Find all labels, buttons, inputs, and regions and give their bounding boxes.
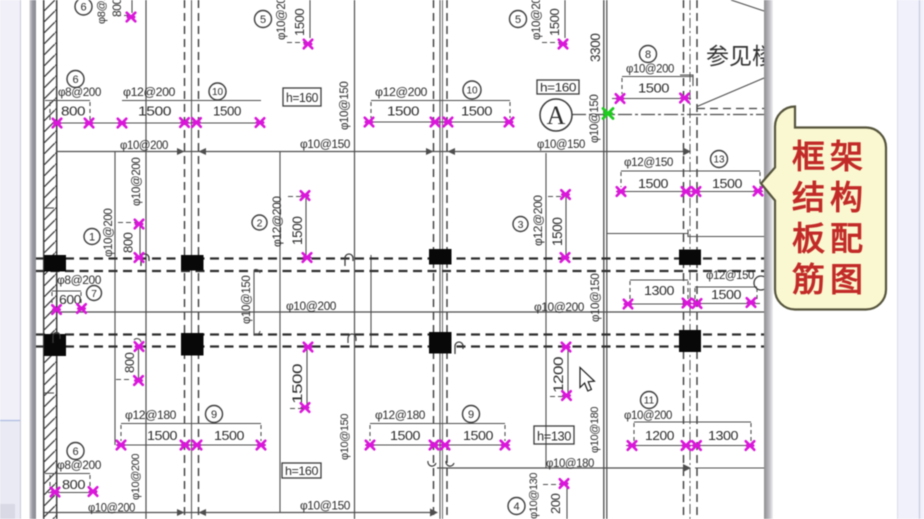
column B2 [181, 333, 204, 356]
callout text [792, 138, 868, 298]
axis A line [572, 114, 764, 116]
svg-text:h=130: h=130 [537, 430, 571, 444]
svg-text:h=160: h=160 [540, 81, 577, 95]
cluster 5 left [255, 0, 313, 48]
svg-text:φ10@200: φ10@200 [534, 302, 584, 314]
cluster 6 top-cut [75, 0, 135, 24]
dim row1 mid: phi12 1500x2 [365, 81, 514, 126]
svg-text:φ12@180: φ12@180 [125, 410, 176, 422]
drawing edge right [764, 0, 897, 519]
svg-text:φ10@180: φ10@180 [589, 407, 601, 453]
stair diagonal 1 [731, 0, 764, 11]
stair corner bracket [680, 75, 693, 86]
svg-text:φ10@200: φ10@200 [131, 158, 143, 206]
wall tick b [44, 207, 54, 209]
cluster 13 [616, 151, 763, 196]
svg-text:筋图: 筋图 [792, 261, 868, 298]
svg-text:φ10@200: φ10@200 [120, 140, 168, 152]
column C2 [429, 332, 452, 354]
bracket phi10@150 x254 [241, 269, 260, 334]
svg-text:1300: 1300 [644, 283, 674, 298]
wire v371 [370, 255, 372, 346]
vtext phi10@150 right [589, 95, 601, 143]
svg-text:1500: 1500 [461, 104, 492, 119]
text phi10@200 bottom left [88, 503, 135, 515]
svg-text:板配: 板配 [792, 220, 868, 257]
svg-text:φ10@150: φ10@150 [589, 95, 601, 143]
h=160 box left [283, 88, 321, 106]
grid line D dashed pair [684, 0, 698, 519]
callout bubble [761, 107, 886, 310]
svg-text:5: 5 [515, 14, 521, 26]
svg-text:1: 1 [89, 231, 95, 243]
cluster 7 600 [52, 275, 102, 314]
svg-text:φ8@200: φ8@200 [58, 87, 101, 99]
hook e [446, 461, 454, 466]
hook d [53, 333, 60, 343]
svg-text:800: 800 [62, 477, 85, 492]
svg-text:φ10@150: φ10@150 [300, 139, 350, 151]
main line y151 with arrow [57, 148, 691, 156]
beam band 2 [36, 335, 764, 347]
h=130 box [534, 426, 574, 444]
svg-text:φ10@200: φ10@200 [624, 410, 672, 422]
svg-text:1500: 1500 [387, 104, 419, 119]
text phi10@150 mid [300, 139, 350, 151]
svg-text:3: 3 [518, 219, 524, 231]
cluster 1300 bottom [708, 423, 754, 450]
svg-text:1500: 1500 [638, 81, 669, 96]
bottom line y512 [44, 509, 438, 517]
svg-text:φ10@150: φ10@150 [339, 82, 351, 130]
svg-text:10: 10 [466, 86, 478, 97]
svg-text:8: 8 [645, 49, 651, 61]
line y236 right [607, 230, 764, 237]
vtext phi10@200 x135 bottom [130, 454, 142, 500]
dim row1 left: phi8 800 + phi12 1500x2 [45, 71, 264, 128]
cluster 5 right [510, 0, 568, 48]
svg-text:φ10@20: φ10@20 [276, 0, 288, 40]
svg-text:φ12@200: φ12@200 [270, 196, 284, 247]
column D1 [679, 250, 701, 266]
column D2 [679, 330, 701, 352]
svg-text:φ12@200: φ12@200 [123, 87, 175, 99]
hook g [348, 334, 356, 343]
right margin strip [897, 0, 924, 519]
hook b [345, 254, 353, 266]
hook a [141, 254, 149, 266]
svg-text:1500: 1500 [547, 9, 562, 36]
column B1 [181, 255, 204, 271]
stair dashed line [697, 108, 764, 110]
svg-text:1500: 1500 [290, 217, 305, 245]
left scrollbar band [30, 0, 37, 519]
hook c [455, 342, 463, 354]
cluster 1 [84, 209, 143, 262]
cluster 11 [624, 392, 754, 450]
svg-text:φ10@150: φ10@150 [537, 139, 585, 151]
wire v280 [279, 151, 281, 512]
text phi10@200 mid1 [286, 301, 336, 313]
svg-text:φ12@200: φ12@200 [375, 87, 427, 99]
wire v605 double [604, 0, 607, 519]
svg-text:1500: 1500 [712, 176, 742, 191]
h=160 box right [537, 80, 579, 95]
svg-text:800: 800 [121, 232, 136, 253]
svg-text:10: 10 [212, 87, 224, 98]
wire v546 [545, 153, 547, 468]
svg-text:1500: 1500 [213, 104, 241, 119]
wall tick a [44, 392, 54, 394]
svg-text:2: 2 [257, 217, 263, 229]
svg-text:φ12@150: φ12@150 [624, 157, 673, 169]
svg-text:9: 9 [211, 409, 217, 421]
cluster phi12@150 1500 right [691, 270, 768, 308]
vtext phi10@200 x136 [131, 158, 143, 206]
svg-text:13: 13 [713, 155, 725, 166]
line y468 with arrow [428, 461, 764, 472]
wire v147 [145, 0, 147, 519]
svg-text:800: 800 [61, 105, 86, 119]
svg-text:φ10@200: φ10@200 [130, 454, 142, 500]
svg-text:1200: 1200 [645, 428, 674, 443]
green snap marker [603, 109, 613, 119]
vdim 1200 x568 [550, 343, 571, 400]
svg-text:φ10@130: φ10@130 [528, 473, 540, 519]
svg-text:φ8@2: φ8@2 [96, 0, 108, 24]
text 3300 [588, 34, 603, 62]
svg-text:1300: 1300 [708, 428, 738, 443]
svg-text:4: 4 [513, 501, 519, 513]
grid line B dashed pair [185, 0, 199, 519]
svg-text:φ10@200: φ10@200 [88, 503, 135, 515]
text phi10@150 right2 [537, 139, 585, 151]
svg-text:5: 5 [260, 14, 266, 26]
vtext phi10@150 x344 bottom [339, 414, 351, 460]
svg-text:φ10@150: φ10@150 [339, 414, 351, 460]
svg-text:3300: 3300 [588, 34, 603, 62]
svg-text:φ12@180: φ12@180 [375, 410, 425, 422]
svg-text:1500: 1500 [292, 9, 307, 36]
svg-text:6: 6 [80, 1, 86, 13]
svg-text:800: 800 [122, 352, 137, 373]
svg-text:1500: 1500 [289, 363, 305, 404]
svg-text:9: 9 [468, 409, 474, 421]
svg-text:1500: 1500 [463, 428, 493, 443]
cluster 2 [252, 191, 311, 262]
svg-text:φ10@150: φ10@150 [300, 501, 350, 513]
left panel [0, 0, 21, 519]
svg-text:1500: 1500 [214, 428, 244, 443]
text phi10@200 left [120, 140, 168, 152]
text phi10@150 bottom mid [300, 501, 350, 513]
svg-text:φ10@200: φ10@200 [103, 209, 115, 257]
svg-text:φ10@200: φ10@200 [286, 301, 336, 313]
svg-text:7: 7 [91, 288, 97, 300]
svg-text:6: 6 [72, 446, 78, 458]
svg-text:1500: 1500 [138, 104, 171, 119]
stair diagonal 2 [697, 78, 764, 107]
cluster 8 [612, 46, 693, 103]
cluster 4 bottom [508, 473, 568, 519]
svg-text:φ12@150: φ12@150 [706, 270, 754, 282]
wall hatch [44, 0, 57, 519]
text 参见楼 [706, 43, 798, 69]
text phi10@180 bottom [546, 458, 594, 470]
svg-text:φ10@20: φ10@20 [531, 0, 543, 40]
vdim 1500 x307 [289, 343, 312, 412]
svg-text:1500: 1500 [638, 176, 668, 191]
vtext phi10@150 mid [339, 82, 351, 130]
main line y313 [57, 311, 764, 313]
mouse cursor [580, 368, 594, 392]
svg-text:1500: 1500 [711, 288, 742, 302]
svg-text:6: 6 [72, 74, 78, 86]
svg-text:11: 11 [644, 396, 655, 407]
vdim 800 x141 [116, 339, 143, 385]
svg-text:1200: 1200 [551, 357, 566, 393]
svg-text:1500: 1500 [390, 428, 420, 443]
wire v115 [114, 151, 116, 445]
h=160 box bottom [282, 463, 321, 478]
text phi10@200 mid2 [534, 302, 584, 314]
svg-text:框架: 框架 [792, 138, 868, 175]
svg-text:1500: 1500 [550, 218, 565, 246]
column A2 [44, 334, 66, 356]
cluster 6 bottom [45, 443, 101, 497]
svg-text:1500: 1500 [147, 428, 177, 443]
beam band 1 [36, 259, 764, 272]
svg-text:A: A [547, 101, 566, 130]
column A1 [44, 255, 66, 272]
grid line C dashed pair [434, 0, 448, 519]
svg-text:φ8@200: φ8@200 [57, 460, 101, 472]
svg-text:φ10@180: φ10@180 [546, 458, 594, 470]
svg-text:200: 200 [548, 493, 563, 514]
svg-text:h=160: h=160 [286, 91, 318, 105]
svg-text:φ10@150: φ10@150 [241, 276, 253, 324]
dim row3 left [116, 406, 266, 450]
svg-text:φ10@150: φ10@150 [590, 274, 602, 322]
svg-text:φ12@200: φ12@200 [531, 195, 545, 246]
dim row3 mid [365, 406, 510, 450]
axis bubble A [540, 99, 572, 131]
vtext phi10@180 x594 [589, 407, 601, 453]
cluster 1300 mid [624, 280, 692, 308]
vtext phi10@150 x594 [590, 274, 602, 322]
svg-text:h=160: h=160 [285, 464, 319, 478]
cluster 3 [513, 190, 570, 262]
svg-text:φ10@200: φ10@200 [626, 64, 674, 76]
svg-text:结构: 结构 [792, 179, 868, 216]
svg-text:800: 800 [110, 0, 124, 17]
wire v354 [354, 0, 356, 519]
column C1 [429, 249, 452, 265]
